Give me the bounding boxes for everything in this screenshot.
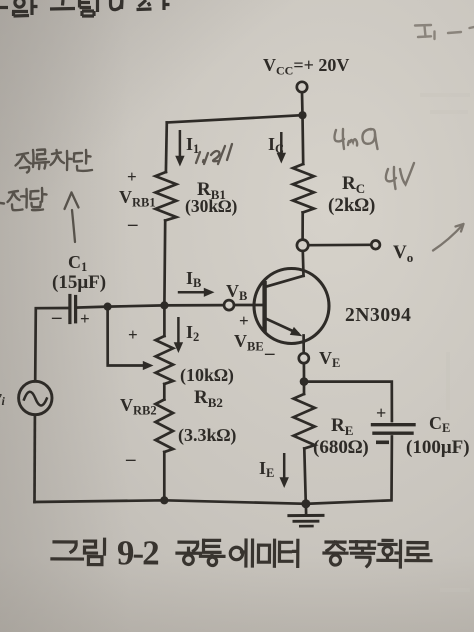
svg-text:(100μF): (100μF) <box>406 437 470 458</box>
handwriting dark: jikryu chadan (DC block) <box>16 150 93 173</box>
wire RC branch top <box>301 115 304 164</box>
transistor Q1 base bar <box>262 281 266 332</box>
resistor RB2 lower (3.3k) <box>156 400 174 453</box>
wire RE top <box>303 382 306 394</box>
caption tong <box>200 540 224 556</box>
transistor Q1 emitter diagonal <box>266 319 298 334</box>
svg-text:+: + <box>127 167 137 186</box>
handwriting dark: jeondal (transfer) <box>0 188 47 210</box>
junction VE node <box>300 377 309 386</box>
junction ground node <box>301 499 310 508</box>
svg-text:9-2: 9-2 <box>117 533 158 572</box>
printed labels <box>0 55 470 480</box>
svg-text:+: + <box>80 309 90 328</box>
wire CE bottom branch <box>306 437 392 504</box>
wire RB2 bottom <box>163 452 166 500</box>
wire VCC stub <box>301 92 304 111</box>
junction base node <box>160 301 168 309</box>
faint bleed-through smudges <box>420 95 474 590</box>
node collector Vo junction <box>297 240 308 251</box>
junction VCC node <box>298 111 306 119</box>
capacitor CE plate bottom <box>374 432 412 435</box>
svg-text:(15μF): (15μF) <box>52 272 106 293</box>
svg-text:–: – <box>51 307 62 328</box>
wire top rail <box>167 115 303 122</box>
label minus CE <box>376 441 389 445</box>
wire ground stub <box>305 504 308 514</box>
svg-text:2N3094: 2N3094 <box>345 305 411 326</box>
transistor Q1 collector diagonal <box>266 276 304 287</box>
wire Vo tap <box>308 243 371 246</box>
caption pok <box>350 542 374 567</box>
node Vo terminal <box>371 241 380 250</box>
svg-text:+: + <box>239 311 249 330</box>
wire collector lead <box>301 251 304 276</box>
capacitor C1 plate right <box>74 297 77 322</box>
arrow I2 <box>177 317 180 343</box>
handwriting scribble 1.1mA near I1 <box>196 144 232 164</box>
caption e <box>230 547 242 559</box>
caption geu <box>52 542 83 559</box>
caption hoe <box>378 540 401 567</box>
svg-text:(2kΩ): (2kΩ) <box>328 195 375 216</box>
arrow pot wiper head <box>143 361 154 370</box>
svg-text:(680Ω): (680Ω) <box>313 437 369 458</box>
svg-text:(10kΩ): (10kΩ) <box>180 365 234 386</box>
junction C1 node <box>104 303 112 311</box>
svg-text:+: + <box>376 403 386 423</box>
resistor RE (680) <box>294 394 315 449</box>
caption figure 9-2 <box>52 539 105 565</box>
transistor Q1 emitter arrowhead <box>290 327 303 336</box>
arrow IC <box>280 132 283 153</box>
capacitor CE plate top <box>373 423 415 426</box>
caption ro <box>406 543 431 561</box>
caption rim <box>84 539 104 565</box>
handwriting light: 4V <box>386 163 414 189</box>
wire RB2 middle <box>163 384 166 400</box>
ground <box>289 514 323 517</box>
wire VB to base <box>234 304 265 307</box>
handwriting light: 4mA <box>335 129 378 149</box>
resistor RB1 (30k) <box>155 172 176 221</box>
wire RC bottom to collector node <box>301 213 304 240</box>
current arrows <box>143 130 289 488</box>
wire RE bottom <box>304 449 306 504</box>
handwriting arrow up <box>65 193 79 243</box>
wire VE to RE junction <box>303 363 306 378</box>
source Vi sine <box>24 392 47 406</box>
node VCC terminal <box>297 82 307 92</box>
node VB terminal <box>224 300 234 310</box>
wire RB1 bottom <box>163 221 167 305</box>
caption mi <box>258 540 274 566</box>
svg-text:+: + <box>128 325 138 344</box>
wire bottom rail <box>35 500 306 504</box>
resistor RB2 upper (10k pot) <box>156 336 174 384</box>
arrow IB <box>178 291 205 294</box>
transistor Q1 emitter lead <box>302 336 305 354</box>
wire pot wiper <box>108 307 144 366</box>
svg-text:VCC=+ 20V: VCC=+ 20V <box>263 55 349 78</box>
svg-text:–: – <box>125 449 136 470</box>
source Vi <box>19 381 52 414</box>
wire RB2 branch top <box>163 305 166 336</box>
resistor RC (2k) <box>293 164 314 213</box>
junction RB2 bottom node <box>160 496 168 504</box>
svg-text:–: – <box>127 214 138 235</box>
svg-text:–: – <box>264 343 275 364</box>
caption jeung <box>324 542 347 553</box>
caption gong <box>177 542 201 553</box>
transistor Q1 2N3094 body <box>254 269 329 344</box>
caption teo <box>279 540 297 566</box>
top cut-off print line <box>0 0 170 16</box>
svg-text:(3.3kΩ): (3.3kΩ) <box>178 425 236 446</box>
circuit ink <box>19 82 414 526</box>
wire left rail lower <box>33 415 36 502</box>
arrow IE <box>283 453 286 478</box>
svg-text:(30kΩ): (30kΩ) <box>185 196 238 216</box>
handwriting light: I1 minus top right <box>415 25 474 39</box>
arrow I1 <box>179 130 182 156</box>
capacitor C1 plate left <box>68 296 71 323</box>
wire base row from C1 to VB <box>76 305 225 308</box>
wire left rail upper <box>35 308 68 381</box>
wire RB1 branch top <box>165 123 169 173</box>
wire CE top branch <box>304 382 392 421</box>
node VE terminal <box>299 353 309 363</box>
handwriting light: curved arrow <box>433 224 464 251</box>
